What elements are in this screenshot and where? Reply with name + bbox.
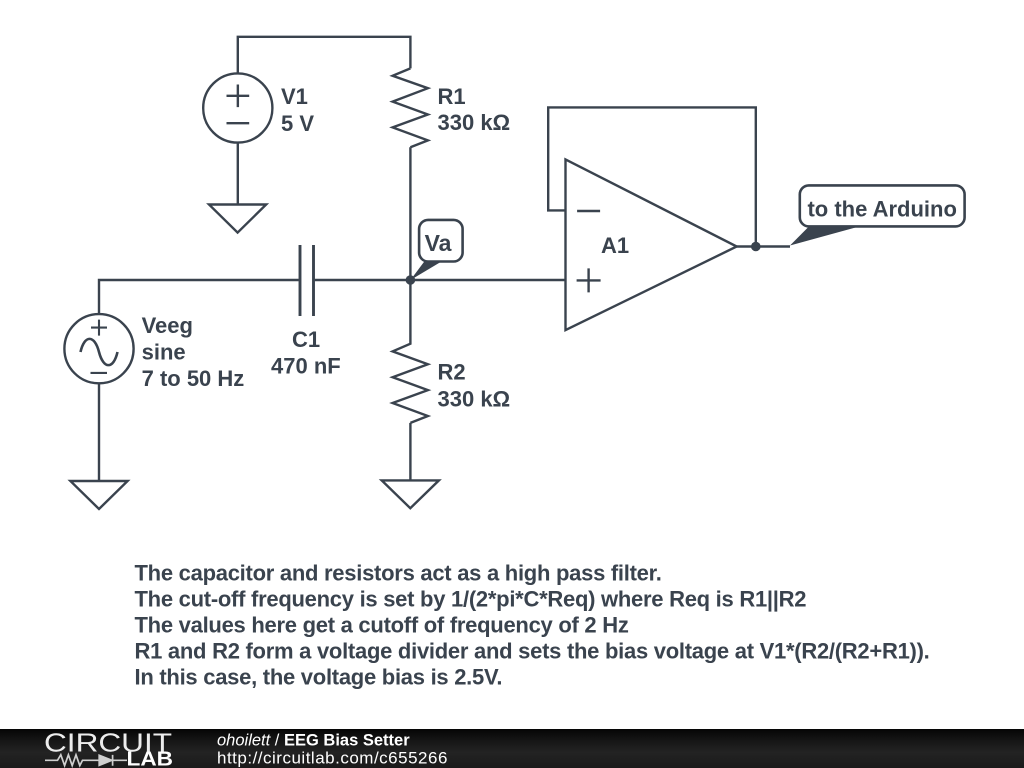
svg-text:The values here get a cutoff o: The values here get a cutoff of frequenc… (135, 613, 629, 638)
junction node dot output (751, 242, 761, 252)
node flag Va (411, 220, 463, 280)
junction node dot Va (406, 275, 416, 285)
voltage source V1 (203, 73, 272, 142)
label R2 value (438, 360, 511, 412)
op-amp plus input marker (577, 268, 601, 292)
wire Veeg to ground (98, 383, 100, 481)
wire V1 to ground (237, 143, 239, 205)
svg-text:http://circuitlab.com/c655266: http://circuitlab.com/c655266 (217, 749, 448, 768)
node flag to the Arduino (790, 185, 965, 245)
wire top rail from V1 to R1 (238, 37, 411, 74)
wire op-amp output (737, 245, 790, 247)
footer bar (0, 729, 1024, 768)
svg-text:In this case, the voltage bias: In this case, the voltage bias is 2.5V. (135, 665, 503, 690)
svg-text:ohoilett / EEG Bias Setter: ohoilett / EEG Bias Setter (217, 732, 410, 750)
svg-text:The cut-off frequency is set b: The cut-off frequency is set by 1/(2*pi*… (135, 587, 807, 612)
ground below R2 (382, 480, 439, 508)
label Veeg value (142, 313, 245, 391)
svg-text:470 nF: 470 nF (271, 353, 341, 378)
wire R1 to node Va (409, 147, 411, 280)
op-amp minus input marker (577, 210, 600, 212)
svg-text:A1: A1 (601, 233, 629, 258)
svg-text:5 V: 5 V (281, 111, 314, 136)
op-amp A1 triangle (566, 159, 737, 330)
svg-text:C1: C1 (292, 327, 320, 352)
svg-text:R1: R1 (438, 84, 466, 109)
capacitor C1 (300, 245, 314, 316)
feedback wire output to inverting input (548, 107, 756, 245)
svg-text:LAB: LAB (127, 749, 174, 768)
svg-text:Va: Va (425, 230, 452, 256)
label V1 value (281, 84, 314, 136)
label C1 value (271, 327, 341, 378)
svg-text:330 kΩ: 330 kΩ (438, 387, 511, 412)
ground below Veeg (70, 481, 127, 509)
ground below V1 (209, 205, 266, 233)
svg-text:7 to 50 Hz: 7 to 50 Hz (142, 366, 245, 391)
wire capacitor to op-amp + input (315, 279, 566, 281)
resistor R1 (393, 68, 428, 147)
label R1 value (438, 84, 511, 135)
resistor R2 (393, 280, 428, 423)
sine source Veeg (64, 314, 133, 383)
logo resistor-diode glyph (45, 755, 127, 766)
wire R2 to ground (409, 423, 411, 481)
svg-text:R1 and R2 form a voltage divid: R1 and R2 form a voltage divider and set… (135, 639, 930, 664)
annotation text block (135, 561, 930, 690)
wire Veeg to capacitor C1 (99, 280, 299, 314)
svg-text:V1: V1 (281, 84, 308, 109)
svg-text:The capacitor and resistors ac: The capacitor and resistors act as a hig… (135, 561, 662, 586)
svg-text:330 kΩ: 330 kΩ (438, 110, 511, 135)
svg-text:sine: sine (142, 339, 186, 364)
svg-text:to the Arduino: to the Arduino (807, 197, 957, 222)
svg-text:Veeg: Veeg (142, 313, 193, 338)
svg-text:R2: R2 (438, 360, 466, 385)
